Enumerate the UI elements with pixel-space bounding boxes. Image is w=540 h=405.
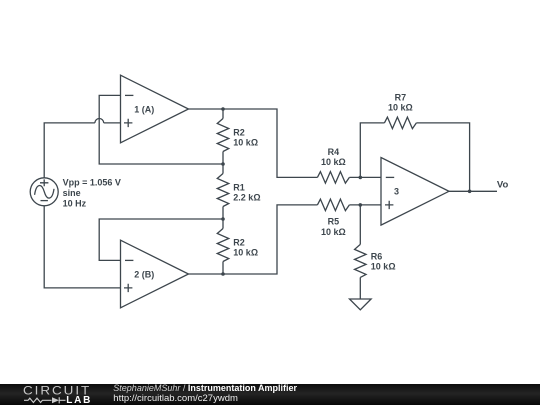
node (output/R7 junction) xyxy=(468,190,472,194)
svg-text:10 kΩ: 10 kΩ xyxy=(321,227,346,237)
svg-text:R5: R5 xyxy=(328,216,340,226)
svg-text:R4: R4 xyxy=(328,147,340,157)
svg-text:1 (A): 1 (A) xyxy=(134,105,154,115)
op-amp U3 xyxy=(381,158,449,226)
op-amp U1 xyxy=(121,75,189,143)
resistor R6 xyxy=(355,244,367,298)
node B (R1/R2 junction) xyxy=(221,217,225,221)
resistor R7 xyxy=(384,117,416,129)
wire R4 to op-amp3 - input xyxy=(349,176,381,178)
svg-text:10 kΩ: 10 kΩ xyxy=(233,248,258,258)
wire R5 to op-amp3 + input xyxy=(349,204,381,206)
wire R7 feedback loop xyxy=(360,123,384,177)
wire op-amp3 output to Vo xyxy=(449,190,497,192)
resistor R4 xyxy=(317,172,349,184)
node A (R2/R1 junction) xyxy=(221,162,225,166)
svg-text:10 kΩ: 10 kΩ xyxy=(388,102,413,112)
svg-text:2.2 kΩ: 2.2 kΩ xyxy=(233,193,260,203)
node (R4/R7 junction) xyxy=(359,176,363,180)
wire node R5 to R6 xyxy=(359,205,361,245)
node (op-amp2 output) xyxy=(221,272,225,276)
svg-text:3: 3 xyxy=(394,187,399,197)
svg-text:R1: R1 xyxy=(233,182,245,192)
wire source bottom to op-amp2 + input xyxy=(44,206,120,288)
svg-text:R2: R2 xyxy=(233,127,245,137)
resistor R2 (top) xyxy=(217,109,229,164)
svg-text:10 Hz: 10 Hz xyxy=(63,198,87,208)
svg-text:LAB: LAB xyxy=(66,395,92,405)
svg-text:10 kΩ: 10 kΩ xyxy=(371,262,396,272)
svg-text:10 kΩ: 10 kΩ xyxy=(321,157,346,167)
wire R7 right to output node xyxy=(416,123,469,191)
footer title text xyxy=(113,383,297,404)
CircuitLab logo xyxy=(23,383,92,405)
resistor R2 (bottom) xyxy=(217,219,229,274)
wire op-amp2 output to R5 xyxy=(189,205,318,274)
ground xyxy=(350,299,372,310)
op-amp U2 xyxy=(121,240,189,308)
svg-text:StephanieMSuhr / Instrumentati: StephanieMSuhr / Instrumentation Amplifi… xyxy=(113,383,297,393)
resistor R1 xyxy=(217,164,229,219)
wire op-amp2 feedback (node B to - input) xyxy=(99,219,223,260)
voltage source V1 xyxy=(30,178,58,206)
svg-text:10 kΩ: 10 kΩ xyxy=(233,138,258,148)
svg-text:R7: R7 xyxy=(395,93,407,103)
wire op-amp1 feedback (node A to - input) xyxy=(99,95,223,164)
svg-text:Vo: Vo xyxy=(497,179,509,190)
svg-text:sine: sine xyxy=(63,188,81,198)
resistor R5 xyxy=(317,199,349,211)
node (R5/R6 junction) xyxy=(359,203,363,207)
wire op-amp1 output to R4 xyxy=(189,109,318,177)
footer bar xyxy=(0,384,540,405)
svg-text:2 (B): 2 (B) xyxy=(134,270,154,280)
svg-text:R6: R6 xyxy=(371,251,383,261)
wire source top to op-amp1 + input (with hop) xyxy=(44,119,120,178)
svg-text:http://circuitlab.com/c27ywdm: http://circuitlab.com/c27ywdm xyxy=(113,393,238,404)
svg-text:R2: R2 xyxy=(233,237,245,247)
svg-text:Vpp = 1.056 V: Vpp = 1.056 V xyxy=(63,178,121,188)
node (op-amp1 output) xyxy=(221,107,225,111)
